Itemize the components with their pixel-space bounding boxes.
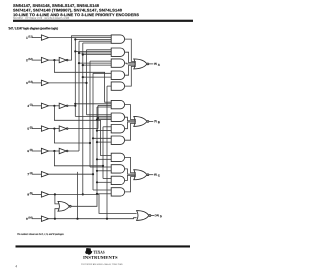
TI logo INSTRUMENTS text: [83, 256, 117, 259]
junction NOT(8+9) tap: [96, 141, 98, 143]
input 7 inverter: [41, 172, 48, 177]
net NOT4 stub A1: [75, 38, 111, 40]
AND gate A2: [111, 48, 124, 56]
junction NOT8 source: [82, 193, 84, 195]
junction NOT4 tap A2: [74, 50, 76, 52]
TI logo TEXAS text: [93, 251, 104, 254]
input 3 label pin (13): [26, 82, 27, 84]
NOR A output bubble: [147, 63, 149, 65]
net NOT6 stub A3: [79, 62, 111, 64]
output C wire: [149, 174, 153, 176]
net NOT(8+9) stub: [97, 141, 111, 143]
wire AND to NOR C: [125, 157, 136, 172]
wire AND to NOR B: [125, 117, 136, 121]
net NOT(8+9) bus: [70, 107, 97, 206]
header line 1: [13, 4, 99, 7]
output NOR gate C: [134, 170, 147, 180]
AND gate B3: [111, 125, 124, 133]
junction input 8 branch: [54, 193, 56, 195]
input 5 inverter bubble: [66, 128, 68, 130]
page number: [15, 265, 17, 267]
header line 3: [13, 13, 139, 16]
net NOT(8+9) stub: [97, 119, 111, 121]
net 4 routing to gate C1: [54, 106, 111, 156]
input 9 lead wire: [32, 218, 42, 220]
header doc number line: [13, 17, 69, 19]
junction NOT6 tap A3: [78, 62, 80, 64]
junction net 7 tap B4: [92, 137, 94, 139]
net 9 vertical bus: [106, 86, 108, 219]
input 6 lead wire: [32, 150, 42, 152]
junction net 6 join: [102, 165, 104, 167]
output label pin (9) A: [154, 63, 157, 65]
input 4 second inverter: [59, 103, 66, 108]
input 5 inverter: [41, 126, 48, 131]
input 6 label pin (3): [28, 150, 29, 152]
wire AND to NOR B: [125, 123, 136, 140]
input 5 lead wire: [32, 128, 42, 130]
junction net 5 join: [89, 142, 91, 144]
junction NOT8 tap A4: [82, 76, 84, 78]
net NOT4 stub A2: [75, 50, 111, 52]
junction net 9 riser: [76, 218, 78, 220]
AND gate B1: [111, 100, 124, 108]
junction input 9 branch: [54, 218, 56, 220]
node input 6 true tap: [53, 150, 55, 152]
input 8 wire to gate D: [49, 194, 137, 213]
AND gate A4: [111, 71, 124, 79]
wire AND to NOR B: [125, 105, 136, 120]
wire between input 2 stages: [49, 59, 60, 61]
figure caption: [8, 27, 58, 30]
net NOT4 vertical bus: [74, 39, 76, 116]
net 6 stub C3: [103, 178, 111, 180]
net NOT8 stub A4: [83, 76, 111, 78]
input 3 lead wire: [32, 82, 42, 84]
wire between input 6 stages: [49, 150, 60, 152]
NOR B output bubble: [147, 121, 149, 123]
input 2 inverter bubble: [66, 59, 68, 61]
junction NOT8 tap A2: [82, 54, 84, 56]
AND gate C3: [111, 176, 124, 184]
net NOT5 stub B1: [98, 104, 111, 106]
NOR U89 output bubble: [69, 205, 71, 207]
AND gate C4: [111, 188, 124, 196]
net NOT6 stub A2: [79, 52, 111, 54]
net 6 routing from tap: [54, 151, 103, 166]
TI logo symbol: [85, 248, 92, 255]
net 5 routing from tap: [54, 129, 90, 143]
net 7 stub B4: [93, 137, 111, 139]
input 9 inverter: [41, 216, 48, 221]
net NOT4 stub B2: [75, 115, 111, 117]
header line 2: [13, 9, 122, 13]
NOR D output bubble: [149, 215, 151, 217]
AND gate B2: [111, 113, 124, 121]
footnote pin numbers note: [17, 233, 64, 235]
net 5 stub C2: [90, 166, 111, 168]
output label pin 14 D: [155, 214, 159, 216]
junction NOT4 tap B1: [74, 103, 76, 105]
input 1 label pin (11): [26, 37, 27, 39]
AND gate B4: [111, 136, 124, 144]
NOR C output bubble: [147, 174, 149, 176]
junction NOT(8+9) tap: [96, 193, 98, 195]
net NOT5 vertical bus: [97, 105, 99, 128]
input 3 output wire: [49, 82, 87, 84]
output NOR gate D: [137, 211, 149, 221]
net 6 vertical bus: [102, 127, 104, 179]
net 3 stub B2: [87, 114, 112, 116]
net NOT5 source wire: [68, 128, 98, 130]
input 7 lead wire: [32, 173, 42, 175]
input 2 second inverter: [59, 57, 66, 62]
input 4 label pin (1): [27, 105, 29, 107]
net NOT6 source wire: [68, 150, 79, 152]
net 7 stub C4: [93, 189, 111, 191]
net 7 vertical bus: [92, 73, 94, 190]
net NOT8 stub A1: [83, 42, 111, 44]
net 9 stub A5: [107, 85, 111, 87]
output label pin (6) C: [154, 174, 157, 176]
junction NOT(8+9) tap: [96, 181, 98, 183]
net 7 stub A4: [93, 72, 111, 74]
net NOT5 stub B2: [98, 117, 111, 119]
wire between input 4 stages: [49, 105, 60, 107]
net NOT(8+9) stub: [97, 158, 111, 160]
net NOT2 bus to gate A1: [68, 36, 111, 60]
net NOT8 stub A2: [83, 54, 111, 56]
input 2 label pin (12): [26, 59, 27, 61]
junction net 3 source: [85, 82, 87, 84]
input 1 lead wire: [32, 37, 42, 39]
net NOT(8+9) stub: [97, 170, 111, 172]
net NOT(8+9) stub: [97, 106, 111, 108]
net 5 stub A3: [90, 60, 111, 62]
net 8 wire into NOR U89: [55, 194, 60, 204]
output NOR gate A: [134, 59, 147, 69]
footer rule: [16, 245, 191, 247]
net NOT(8+9) stub: [97, 130, 111, 132]
AND gate A1: [111, 35, 124, 43]
output A wire: [149, 63, 153, 65]
input 7 output wire: [49, 173, 93, 175]
wire AND to NOR C: [125, 169, 136, 174]
wire AND to NOR A: [125, 52, 136, 62]
footer address line: [81, 264, 122, 266]
wire AND to NOR A: [125, 62, 136, 65]
input 5 second inverter: [59, 126, 66, 131]
net 1 wire to gate A1: [49, 37, 112, 39]
internal NOR gate U89: [58, 201, 69, 211]
input 4 inverter bubble: [66, 105, 68, 107]
input 3 inverter: [41, 80, 48, 85]
header rule: [13, 20, 193, 22]
AND gate A3: [111, 59, 124, 67]
input 4 lead wire: [32, 105, 42, 107]
input 6 inverter bubble: [66, 150, 68, 152]
node input 2 true tap: [53, 59, 55, 61]
net 3 vertical bus: [86, 50, 88, 115]
input 1 inverter: [41, 35, 48, 40]
wire AND to NOR A: [125, 39, 136, 61]
output B wire: [149, 120, 153, 122]
output D wire: [151, 215, 154, 217]
input 2 lead wire: [32, 59, 42, 61]
output NOR gate B: [134, 116, 147, 126]
wire AND to NOR C: [125, 177, 136, 192]
junction NOT6 tap A2: [78, 52, 80, 54]
net 9 branch riser: [77, 172, 79, 219]
net NOT(8+9) stub: [97, 193, 111, 195]
wire AND to NOR B: [125, 122, 136, 129]
net 2 routing to gate B1: [54, 60, 111, 102]
input 8 inverter: [41, 192, 48, 197]
junction NOT(8+9) tap: [96, 119, 98, 121]
input 6 inverter: [41, 148, 48, 153]
net NOT(8+9) stub: [97, 181, 111, 183]
input 9 label pin (10): [26, 218, 27, 220]
net NOT4 stub B1: [75, 103, 111, 105]
junction NOT(8+9) tap: [96, 170, 98, 172]
node input 4 true tap: [53, 105, 55, 107]
net 6 stub B3: [103, 126, 111, 128]
net NOT8 stub A3: [83, 64, 111, 66]
junction NOT(8+9) tap: [96, 158, 98, 160]
net NOT4 source wire: [68, 105, 75, 107]
junction NOT8 tap A3: [82, 64, 84, 66]
wire AND to NOR A: [125, 66, 136, 86]
net 3 stub A2: [87, 49, 112, 51]
junction NOT(8+9) tap: [96, 130, 98, 132]
input 8 lead wire: [32, 193, 42, 195]
input 6 second inverter: [59, 148, 66, 153]
input 2 inverter: [41, 57, 48, 62]
input 9 wire to gate D: [49, 218, 137, 219]
net 9 wire into NOR U89: [55, 209, 60, 219]
AND gate A5: [111, 82, 124, 90]
input 7 label pin (4): [28, 173, 29, 175]
node input 5 true tap: [53, 128, 55, 130]
net NOT8 vertical bus: [82, 43, 84, 194]
wire AND to NOR C: [125, 175, 136, 180]
net 5 vertical bus: [89, 61, 91, 167]
input 8 label pin (5): [28, 194, 29, 196]
net NOT6 vertical bus: [78, 41, 80, 151]
AND gate C2: [111, 165, 124, 173]
junction NOT5 tap B2: [97, 117, 99, 119]
output label pin (7) B: [154, 120, 157, 122]
AND gate C1: [111, 153, 124, 161]
junction NOT4 source: [74, 105, 76, 107]
junction net 9 source: [106, 218, 108, 220]
net NOT6 stub A1: [79, 40, 111, 42]
junction NOT4 tap A1: [74, 38, 76, 40]
wire AND to NOR A: [125, 65, 136, 75]
input 4 inverter: [41, 103, 48, 108]
junction net 7 source: [92, 173, 94, 175]
input 5 label pin (2): [28, 128, 29, 130]
wire between input 5 stages: [49, 128, 60, 130]
